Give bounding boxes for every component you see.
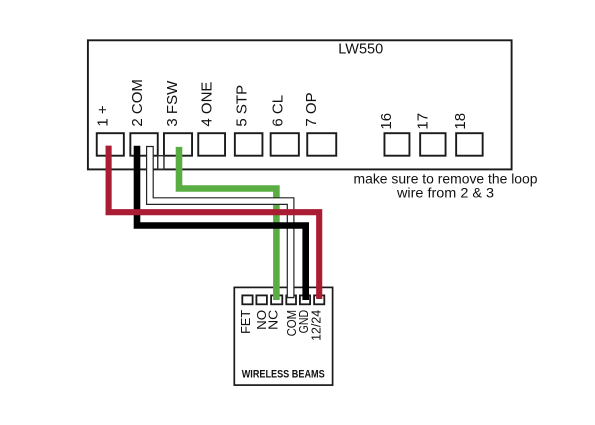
svg-text:wire from 2 & 3: wire from 2 & 3 (396, 184, 494, 200)
loop wire between terminals 2 and 3 (158, 156, 164, 170)
svg-text:WIRELESS BEAMS: WIRELESS BEAMS (242, 368, 325, 380)
svg-text:12/24: 12/24 (309, 310, 324, 341)
svg-text:7 OP: 7 OP (303, 92, 320, 126)
terminal 3 square (164, 133, 192, 156)
wire white outline (loop wire): terminal 2 COM to beam COM (150, 146, 291, 298)
wire white fill (150, 147, 291, 297)
svg-text:LW550: LW550 (338, 42, 383, 58)
LW550 control board box (88, 40, 512, 169)
WIRELESS BEAMS box (234, 287, 332, 385)
svg-text:5 STP: 5 STP (234, 85, 251, 127)
terminal 7 square (307, 133, 336, 156)
beam terminal NC square (271, 295, 282, 304)
beam terminal COM square (286, 295, 296, 304)
wire black: terminal 2 COM to beam GND (137, 146, 306, 300)
svg-text:6 CL: 6 CL (269, 95, 286, 127)
terminal 4 square (198, 133, 225, 156)
beam terminal NO square (256, 295, 267, 304)
svg-text:FET: FET (238, 310, 253, 334)
terminal 1 square (97, 133, 124, 156)
svg-text:3 FSW: 3 FSW (164, 80, 181, 127)
svg-text:18: 18 (452, 113, 469, 130)
svg-text:2 COM: 2 COM (129, 79, 146, 127)
wire green: terminal 3 FSW to beam NC (179, 147, 276, 300)
beam terminal FET square (242, 295, 252, 304)
svg-text:1 +: 1 + (95, 105, 112, 127)
terminal 16 square (384, 133, 409, 156)
wire red: terminal 1 + to beam 12/24 (109, 146, 320, 299)
beam terminal 12/24 square (314, 295, 324, 304)
terminal 5 square (235, 133, 263, 156)
terminal 17 square (420, 133, 445, 156)
svg-text:NC: NC (266, 310, 281, 330)
svg-text:16: 16 (378, 113, 395, 130)
beam terminal GND square (300, 295, 310, 304)
svg-text:4 ONE: 4 ONE (199, 82, 216, 127)
terminal 2 square (130, 133, 157, 156)
terminal 6 square (271, 133, 299, 156)
terminal 18 square (456, 133, 483, 156)
svg-text:17: 17 (415, 113, 432, 130)
